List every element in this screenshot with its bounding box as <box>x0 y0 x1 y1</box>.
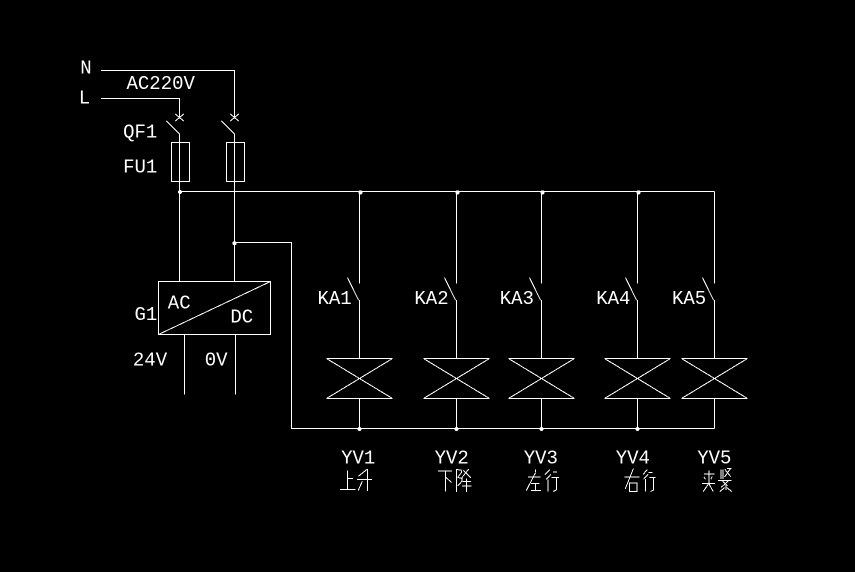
svg-text:YV2: YV2 <box>435 448 469 470</box>
label YV4 <box>616 448 650 470</box>
wire top bus <box>180 191 715 193</box>
wire pole2 to G1 <box>234 134 236 282</box>
svg-text:KA1: KA1 <box>318 288 352 310</box>
label Chinese XIA-JIANG (down) under YV2 <box>438 469 472 492</box>
contact KA3 <box>530 278 541 301</box>
wire branch 2 upper <box>456 192 458 284</box>
wire L line <box>101 99 180 118</box>
wire branch 1 upper <box>359 192 361 284</box>
wire 24V terminal <box>184 335 186 395</box>
label 24V <box>133 350 168 372</box>
contact KA5 <box>703 278 714 301</box>
svg-text:G1: G1 <box>135 304 158 326</box>
wire KA5 to YV5 <box>714 300 716 359</box>
power supply G1 box <box>159 282 271 335</box>
solenoid valve YV1 <box>327 359 393 399</box>
svg-text:YV3: YV3 <box>524 448 558 470</box>
svg-text:AC220V: AC220V <box>127 73 196 95</box>
label 0V <box>205 350 228 372</box>
label AC <box>168 293 191 315</box>
label KA2 <box>414 288 448 310</box>
svg-text:QF1: QF1 <box>123 121 157 143</box>
junction dot bottom bus branch 3 <box>540 427 544 431</box>
solenoid valve YV3 <box>509 359 575 399</box>
svg-text:0V: 0V <box>205 350 228 372</box>
svg-text:KA2: KA2 <box>414 288 448 310</box>
svg-text:YV1: YV1 <box>341 448 375 470</box>
solenoid valve YV4 <box>605 359 671 399</box>
label Chinese JIA-JIN (clamp) under YV5 <box>702 469 732 492</box>
label KA4 <box>596 288 630 310</box>
contact KA4 <box>626 278 637 301</box>
solenoid valve YV5 <box>682 359 748 399</box>
svg-text:YV5: YV5 <box>697 448 731 470</box>
wire branch 3 upper <box>541 192 543 284</box>
svg-text:24V: 24V <box>133 350 168 372</box>
junction dot left bus <box>178 190 182 194</box>
wire YV4 lower <box>637 399 639 429</box>
wire YV2 lower <box>456 399 458 429</box>
svg-text:KA3: KA3 <box>500 288 534 310</box>
svg-text:FU1: FU1 <box>123 157 157 179</box>
wire branch 4 upper <box>637 192 639 284</box>
label AC220V <box>127 73 196 95</box>
label KA3 <box>500 288 534 310</box>
label QF1 <box>123 121 157 143</box>
svg-text:N: N <box>80 57 91 79</box>
wire branch 5 upper <box>714 192 716 284</box>
svg-text:L: L <box>79 88 90 110</box>
wire YV3 lower <box>541 399 543 429</box>
label Chinese SHANG-SHENG (up) under YV1 <box>340 469 372 491</box>
label FU1 <box>123 157 157 179</box>
svg-text:YV4: YV4 <box>616 448 650 470</box>
wire KA3 to YV3 <box>541 300 543 359</box>
junction dot bottom bus branch 1 <box>358 427 362 431</box>
junction dot top bus branch 4 <box>637 190 641 194</box>
svg-text:AC: AC <box>168 293 191 315</box>
contact KA2 <box>445 278 456 301</box>
wire N line <box>101 71 235 118</box>
junction dot bottom bus branch 4 <box>636 427 640 431</box>
wire YV5 lower <box>714 399 716 429</box>
breaker QF1 pole 1 <box>167 114 185 134</box>
wire pole1 to G1 <box>179 134 181 282</box>
wire KA1 to YV1 <box>359 300 361 359</box>
solenoid valve YV2 <box>424 359 490 399</box>
fuse FU1 element 1 <box>172 143 190 182</box>
breaker QF1 pole 2 <box>222 114 240 134</box>
label KA5 <box>672 288 706 310</box>
wire KA2 to YV2 <box>456 300 458 359</box>
node N <box>80 57 91 79</box>
junction dot top bus branch 1 <box>359 190 363 194</box>
junction dot top bus branch 3 <box>541 190 545 194</box>
fuse FU1 element 2 <box>227 143 245 182</box>
wire KA4 to YV4 <box>637 300 639 359</box>
label Chinese YOU-XING (right) under YV4 <box>625 469 656 492</box>
wire return path to bottom bus <box>235 243 715 429</box>
label YV2 <box>435 448 469 470</box>
label YV1 <box>341 448 375 470</box>
label KA1 <box>318 288 352 310</box>
svg-text:KA4: KA4 <box>596 288 630 310</box>
svg-text:KA5: KA5 <box>672 288 706 310</box>
node L <box>79 88 90 110</box>
contact KA1 <box>348 278 359 301</box>
label DC <box>230 307 253 329</box>
svg-text:DC: DC <box>230 307 253 329</box>
wire 0V terminal <box>235 335 237 395</box>
label G1 <box>135 304 158 326</box>
junction dot elbow <box>233 241 237 245</box>
wire YV1 lower <box>359 399 361 429</box>
label YV3 <box>524 448 558 470</box>
label YV5 <box>697 448 731 470</box>
junction dot top bus branch 2 <box>456 190 460 194</box>
junction dot bottom bus branch 2 <box>455 427 459 431</box>
label Chinese ZUO-XING (left) under YV3 <box>526 469 559 491</box>
